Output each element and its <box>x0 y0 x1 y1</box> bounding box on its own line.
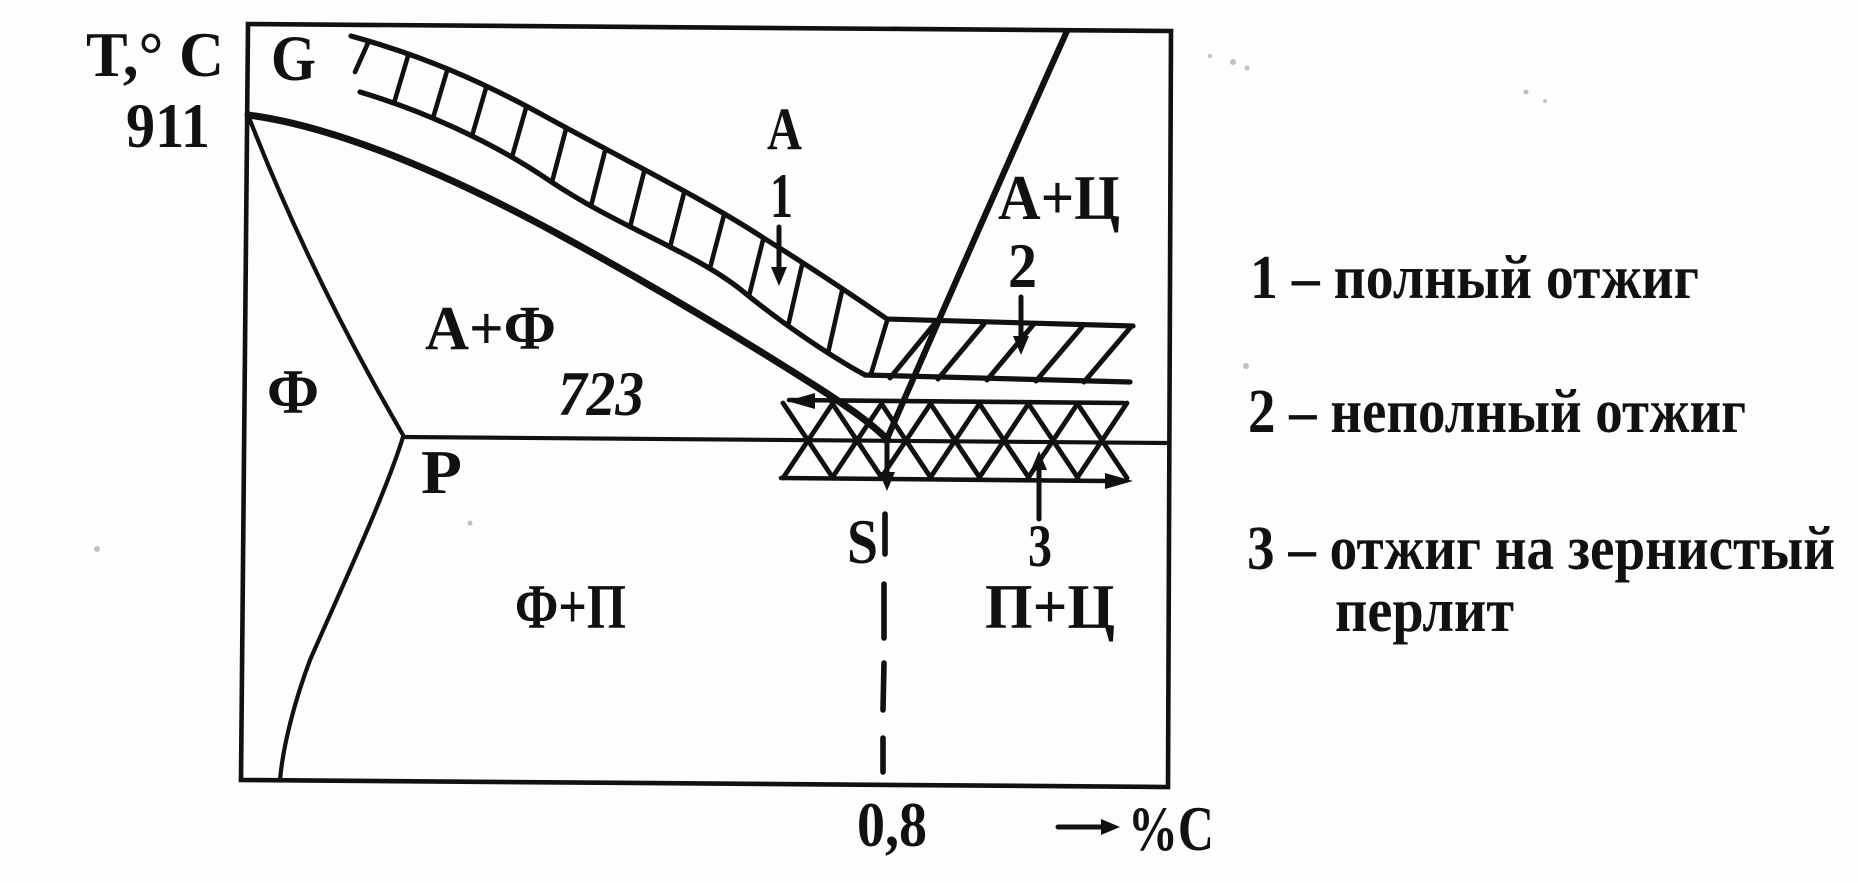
svg-text:1: 1 <box>770 160 793 231</box>
svg-text:T,° C: T,° C <box>86 19 224 90</box>
svg-text:А+Ц: А+Ц <box>998 163 1120 233</box>
svg-text:2 – неполный отжиг: 2 – неполный отжиг <box>1248 378 1746 446</box>
svg-text:3: 3 <box>1028 513 1052 579</box>
svg-text:Ф: Ф <box>267 356 319 427</box>
svg-text:перлит: перлит <box>1335 577 1514 645</box>
svg-text:3 – отжиг на зернистый: 3 – отжиг на зернистый <box>1247 515 1835 583</box>
svg-text:S: S <box>847 507 878 577</box>
svg-text:Ф+П: Ф+П <box>515 571 626 642</box>
svg-text:723: 723 <box>558 358 644 429</box>
svg-text:А+Ф: А+Ф <box>425 295 556 363</box>
svg-text:P: P <box>421 439 462 507</box>
svg-text:911: 911 <box>126 91 210 161</box>
svg-text:G: G <box>271 23 316 95</box>
svg-text:1 – полный отжиг: 1 – полный отжиг <box>1250 244 1699 312</box>
svg-text:П+Ц: П+Ц <box>985 571 1115 642</box>
svg-text:%C: %C <box>1128 793 1214 864</box>
svg-text:2: 2 <box>1008 231 1037 301</box>
svg-text:0,8: 0,8 <box>857 789 927 860</box>
svg-text:A: A <box>767 96 802 162</box>
